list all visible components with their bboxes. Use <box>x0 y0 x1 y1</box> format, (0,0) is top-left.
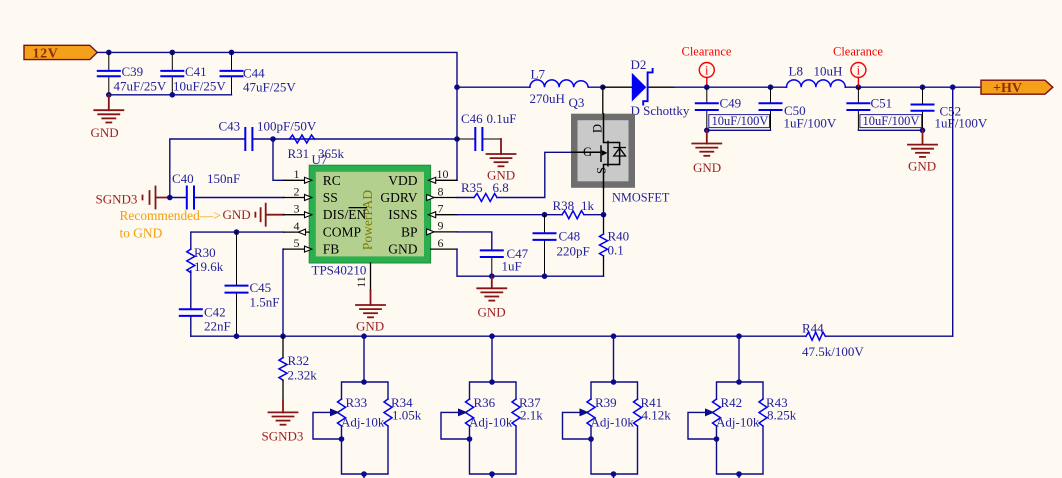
node rail-C52 <box>920 84 926 90</box>
svg-text:22nF: 22nF <box>204 319 231 334</box>
capacitor C52 <box>912 87 988 130</box>
svg-text:8: 8 <box>438 184 444 198</box>
capacitor C48 <box>534 215 590 277</box>
node wiper join <box>339 436 345 442</box>
label Clearance 2 <box>833 45 883 87</box>
svg-text:C48: C48 <box>559 229 581 244</box>
note Recommended to GND <box>120 208 221 241</box>
svg-text:2.1k: 2.1k <box>520 408 543 423</box>
capacitor C44 <box>221 52 297 94</box>
ground GND under C52 <box>908 130 937 173</box>
svg-text:DIS/EN: DIS/EN <box>323 207 367 222</box>
svg-text:Adj-10k: Adj-10k <box>469 415 513 430</box>
wire +HV feedback drop <box>952 87 954 336</box>
svg-text:6.8: 6.8 <box>493 180 509 195</box>
svg-text:i: i <box>857 64 861 78</box>
svg-text:1uF/100V: 1uF/100V <box>935 116 988 131</box>
potentiometer R42 <box>713 399 721 426</box>
node rail-C49 <box>704 84 710 90</box>
pin 3 DIS/EN <box>284 202 367 223</box>
node VDD-C43 <box>454 136 460 142</box>
svg-text:U7: U7 <box>312 152 328 167</box>
svg-text:7: 7 <box>438 202 444 216</box>
svg-text:R30: R30 <box>194 245 216 260</box>
capacitor C41 <box>161 52 226 94</box>
node 12V-C44 <box>229 50 235 56</box>
svg-text:SGND3: SGND3 <box>262 428 304 443</box>
wire C51-C52 gnd rail <box>858 129 922 131</box>
pin 2 SS <box>284 184 338 205</box>
node bus-pot4 <box>736 333 742 339</box>
svg-text:COMP: COMP <box>323 225 361 240</box>
svg-text:1: 1 <box>294 167 300 181</box>
svg-text:100pF/50V: 100pF/50V <box>257 119 317 134</box>
svg-text:Recommended—>: Recommended—> <box>120 208 221 223</box>
svg-text:GND: GND <box>478 305 506 320</box>
svg-text:L8: L8 <box>789 64 803 79</box>
svg-text:8.25k: 8.25k <box>767 408 797 423</box>
svg-text:D2: D2 <box>631 57 647 72</box>
svg-text:R31: R31 <box>288 146 310 161</box>
capacitor C49 <box>696 87 770 130</box>
node rail-C51 <box>856 84 862 90</box>
resistor R34 <box>384 399 392 426</box>
capacitor C43 <box>219 119 317 151</box>
wire BP to C47 <box>457 232 492 251</box>
svg-text:10uF/25V: 10uF/25V <box>173 79 226 94</box>
wiper of R36 <box>441 412 470 439</box>
wire FB net <box>282 249 285 336</box>
potentiometer R39 <box>587 399 595 426</box>
svg-text:1.5nF: 1.5nF <box>250 295 280 310</box>
svg-text:TPS40210: TPS40210 <box>312 263 367 278</box>
capacitor C47 <box>481 246 529 276</box>
port 12V <box>24 45 97 61</box>
wire output rail <box>674 86 981 88</box>
svg-text:C43: C43 <box>219 119 241 134</box>
svg-text:C40: C40 <box>172 171 194 186</box>
svg-text:9: 9 <box>438 219 444 233</box>
ground GND under C47 <box>477 276 506 319</box>
pin 11 PowerPAD <box>354 263 371 290</box>
trimmer network R42/R43 <box>688 336 797 478</box>
node bus-pot2 <box>489 333 495 339</box>
svg-text:2.32k: 2.32k <box>288 368 318 383</box>
svg-text:12V: 12V <box>33 46 59 61</box>
node C49 gnd <box>704 128 710 134</box>
wiper of R39 <box>563 412 592 439</box>
wire C43/R31 horizontal net <box>170 139 457 198</box>
power SGND3 (left) <box>96 187 170 209</box>
pin 7 ISNS <box>388 202 457 223</box>
svg-text:C45: C45 <box>250 280 272 295</box>
svg-text:G: G <box>583 145 592 159</box>
svg-text:RC: RC <box>323 173 341 188</box>
svg-text:Adj-10k: Adj-10k <box>591 415 635 430</box>
node ISNS-C48 <box>542 212 548 218</box>
node C47 gnd <box>489 273 495 279</box>
svg-text:47uF/25V: 47uF/25V <box>114 79 167 94</box>
power GND (DIS pin) <box>223 204 284 226</box>
capacitor C40 <box>170 171 284 209</box>
svg-text:+HV: +HV <box>993 81 1022 96</box>
svg-text:C41: C41 <box>185 64 207 79</box>
svg-text:S: S <box>595 167 609 174</box>
ground GND under C49 <box>692 130 721 175</box>
svg-text:0.1uF: 0.1uF <box>487 111 517 126</box>
node COMP-C45 <box>234 229 240 235</box>
wire COMP net <box>191 232 284 336</box>
svg-text:ISNS: ISNS <box>388 207 417 222</box>
svg-text:1uF: 1uF <box>502 259 522 274</box>
svg-text:47.5k/100V: 47.5k/100V <box>802 344 864 359</box>
svg-text:BP: BP <box>401 224 418 239</box>
wire RC pin drop <box>273 139 284 180</box>
svg-text:SGND3: SGND3 <box>96 192 138 207</box>
ground GND input <box>94 95 123 123</box>
pin 6 GND <box>388 236 457 257</box>
node C52 gnd <box>920 128 926 134</box>
node pot top <box>361 379 367 385</box>
node pot bottom <box>611 471 617 477</box>
svg-text:6: 6 <box>438 236 444 250</box>
svg-text:Clearance: Clearance <box>833 45 883 59</box>
svg-text:GND: GND <box>388 242 417 257</box>
svg-text:NMOSFET: NMOSFET <box>612 191 670 205</box>
node bus-pot1 <box>361 333 367 339</box>
svg-text:Clearance: Clearance <box>682 45 732 59</box>
node rail-C50 <box>768 84 774 90</box>
node ISNS-R40-source <box>601 212 607 218</box>
wire L7 net <box>457 86 603 88</box>
svg-text:5: 5 <box>294 236 300 250</box>
wire GDRV to gate <box>457 152 571 197</box>
svg-text:150nF: 150nF <box>207 171 240 186</box>
svg-text:to GND: to GND <box>120 226 163 241</box>
svg-text:1uF/100V: 1uF/100V <box>784 116 837 131</box>
svg-text:1k: 1k <box>581 198 595 213</box>
wire GND pin6 to R40 bottom <box>457 249 604 276</box>
svg-text:D: D <box>591 124 605 133</box>
svg-text:19.6k: 19.6k <box>194 259 224 274</box>
node wiper join <box>588 436 594 442</box>
node C48 bottom <box>542 273 548 279</box>
resistor R44 <box>802 321 864 360</box>
svg-text:3: 3 <box>294 202 300 216</box>
resistor R43 <box>759 399 767 426</box>
pin 9 BP <box>401 219 457 240</box>
svg-text:D Schottky: D Schottky <box>631 103 690 118</box>
node pot bottom <box>361 471 367 477</box>
capacitor C51 <box>847 87 921 130</box>
svg-text:SS: SS <box>323 190 338 205</box>
resistor R32 <box>279 336 317 400</box>
node VDD-L7 branch <box>454 84 460 90</box>
capacitor C42 <box>180 305 231 334</box>
capacitor C50 <box>760 87 837 130</box>
label Clearance 1 <box>682 45 732 87</box>
svg-text:4: 4 <box>294 219 300 233</box>
svg-text:2: 2 <box>294 184 300 198</box>
svg-text:C46: C46 <box>461 111 483 126</box>
node pot top <box>489 379 495 385</box>
svg-text:10uH: 10uH <box>814 64 843 79</box>
resistor R38 <box>553 198 595 219</box>
svg-text:10uF/100V: 10uF/100V <box>863 114 920 128</box>
node bus-pot3 <box>611 333 617 339</box>
power SGND3 under R32 <box>262 400 304 443</box>
svg-text:GND: GND <box>908 159 936 174</box>
pin 8 GDRV <box>380 184 457 205</box>
capacitor C46 <box>457 111 516 150</box>
potentiometer R33 <box>338 399 346 426</box>
node C39 gnd <box>106 92 112 98</box>
node C43-R31-RC <box>270 136 276 142</box>
svg-text:R42: R42 <box>721 395 743 410</box>
potentiometer R36 <box>466 399 474 426</box>
wire C49-C50 gnd rail <box>707 129 771 131</box>
node pot bottom <box>736 471 742 477</box>
svg-text:C51: C51 <box>871 96 893 111</box>
svg-text:GDRV: GDRV <box>380 190 417 205</box>
svg-text:R38: R38 <box>553 198 575 213</box>
wiper of R33 <box>313 412 342 439</box>
node SGND3-C40 <box>167 195 173 201</box>
svg-text:47uF/25V: 47uF/25V <box>243 80 296 95</box>
ic U7 TPS40210 body <box>309 152 430 278</box>
svg-text:10uF/100V: 10uF/100V <box>712 114 769 128</box>
inductor L8 <box>787 64 846 88</box>
pin 10 VDD <box>388 167 457 188</box>
capacitor C39 <box>98 52 167 94</box>
svg-text:R32: R32 <box>288 353 310 368</box>
svg-text:GND: GND <box>356 318 384 333</box>
svg-text:GND: GND <box>223 207 251 222</box>
trimmer network R33/R34 <box>313 336 422 478</box>
node rail-R44 tap <box>950 84 956 90</box>
node pot top <box>611 379 617 385</box>
svg-text:R33: R33 <box>346 395 368 410</box>
svg-text:C49: C49 <box>720 96 742 111</box>
wire 12V top rail <box>97 52 457 180</box>
wire ISNS net <box>457 214 604 216</box>
node pot top <box>736 379 742 385</box>
svg-text:i: i <box>705 64 709 78</box>
capacitor C45 <box>226 232 280 336</box>
svg-text:0.1: 0.1 <box>608 243 624 258</box>
node 12V-C39 <box>106 50 112 56</box>
svg-text:C42: C42 <box>204 305 226 320</box>
ground GND under U7 <box>356 290 385 333</box>
pin 1 RC <box>284 167 341 188</box>
svg-text:FB: FB <box>323 242 340 257</box>
trimmer network R36/R37 <box>441 336 543 478</box>
transistor Q2 mosfet Q3 <box>569 87 670 215</box>
resistor R40 <box>600 215 630 277</box>
diode D2 Schottky <box>603 57 690 118</box>
svg-text:C44: C44 <box>243 66 265 81</box>
svg-text:R35: R35 <box>461 180 483 195</box>
node L7-D2-Q3 <box>600 84 606 90</box>
node wiper join <box>714 436 720 442</box>
resistor R41 <box>634 399 642 426</box>
resistor R35 <box>461 180 509 202</box>
ground GND under C46 <box>487 139 516 183</box>
svg-text:R36: R36 <box>474 395 496 410</box>
node bus-C45 <box>234 333 240 339</box>
port +HV <box>981 80 1053 96</box>
inductor L7 <box>530 67 589 107</box>
wire bottom feedback bus <box>191 335 953 337</box>
svg-text:Q3: Q3 <box>569 95 585 110</box>
svg-text:R40: R40 <box>608 229 630 244</box>
node pot bottom <box>489 471 495 477</box>
node 12V-C41 <box>170 50 176 56</box>
svg-text:GND: GND <box>693 160 721 175</box>
svg-text:1.05k: 1.05k <box>392 408 422 423</box>
resistor R31 <box>288 135 345 161</box>
trimmer network R39/R41 <box>563 336 672 478</box>
svg-text:220pF: 220pF <box>557 244 590 259</box>
pin 4 COMP <box>284 219 362 240</box>
pin 5 FB <box>284 236 340 257</box>
svg-text:4.12k: 4.12k <box>642 408 672 423</box>
svg-text:11: 11 <box>354 276 368 288</box>
svg-text:R39: R39 <box>595 395 617 410</box>
node bus-FB-R32 <box>280 333 286 339</box>
resistor R37 <box>512 399 520 426</box>
svg-text:C39: C39 <box>122 64 144 79</box>
svg-text:VDD: VDD <box>388 173 417 188</box>
svg-text:GND: GND <box>91 125 119 140</box>
svg-text:L7: L7 <box>531 67 546 82</box>
svg-text:270uH: 270uH <box>530 91 565 106</box>
node wiper join <box>467 436 473 442</box>
svg-text:10: 10 <box>437 167 449 181</box>
resistor R30 <box>187 245 224 274</box>
node C41 bottom <box>170 92 176 98</box>
svg-text:Adj-10k: Adj-10k <box>341 415 385 430</box>
wiper of R42 <box>688 412 717 439</box>
svg-text:R44: R44 <box>802 321 824 336</box>
wire input cap bottom rail <box>109 94 232 96</box>
svg-text:Adj-10k: Adj-10k <box>716 415 760 430</box>
